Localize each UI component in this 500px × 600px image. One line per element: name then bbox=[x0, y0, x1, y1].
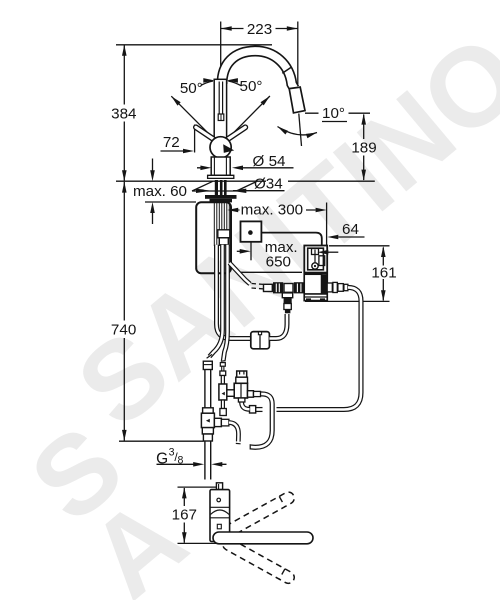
arrow 740 top bbox=[122, 182, 127, 193]
10 deg underline bbox=[322, 121, 347, 123]
svg-text:8: 8 bbox=[178, 455, 184, 467]
svg-text:167: 167 bbox=[172, 507, 197, 524]
dim 161 line bbox=[382, 248, 384, 301]
plan view faucet body bbox=[210, 490, 230, 542]
stabilizer plate bbox=[205, 195, 237, 199]
arrow max60 lower bbox=[150, 202, 155, 213]
G3/8 leader bbox=[157, 463, 227, 465]
base flange bbox=[208, 175, 234, 178]
arrow Ø54 left bbox=[200, 166, 211, 171]
arrow Ø54 right bbox=[232, 166, 243, 171]
shut-off valve upper nut bbox=[220, 371, 226, 376]
svg-text:740: 740 bbox=[111, 322, 136, 339]
dim 72 tick line bbox=[194, 125, 196, 153]
shut-off valve stem lower bbox=[221, 400, 224, 409]
hose weight bbox=[251, 332, 270, 349]
control box lower compartment bbox=[304, 274, 321, 294]
dim 189 top extension bbox=[305, 112, 370, 114]
arrow Ø34 left bbox=[196, 189, 211, 193]
control box top nipple bbox=[312, 249, 319, 255]
arrow max300 left bbox=[227, 208, 238, 213]
control box screw bbox=[312, 263, 318, 269]
dim 72 leader bbox=[161, 150, 185, 152]
arrow 50deg right at column bbox=[227, 78, 238, 83]
svg-text:G: G bbox=[156, 450, 168, 467]
max60 arrow shafts bbox=[152, 159, 154, 225]
arrow 167 bottom bbox=[182, 532, 187, 543]
bundle fitting upper bbox=[218, 230, 230, 238]
thermostat right port bbox=[248, 391, 254, 398]
svg-text:384: 384 bbox=[111, 105, 136, 122]
svg-text:max. 300: max. 300 bbox=[241, 202, 303, 219]
50 deg right arc bbox=[228, 81, 241, 86]
control box upper compartment bbox=[308, 248, 324, 270]
svg-text:10°: 10° bbox=[322, 105, 345, 122]
countertop line bbox=[116, 180, 375, 182]
dim 161 top extension bbox=[329, 245, 390, 247]
dim max300 line bbox=[238, 209, 315, 211]
dim 167 line bbox=[183, 488, 185, 543]
arrow 50deg left diagonal bbox=[171, 96, 180, 105]
arrow 72 bbox=[183, 149, 194, 154]
lever left bbox=[196, 127, 213, 139]
dim max650 underline bbox=[239, 271, 302, 273]
arrow 189 bottom bbox=[361, 170, 366, 181]
branch hose bbox=[229, 423, 239, 442]
arrow 384 bottom bbox=[122, 170, 127, 181]
arrow 189 top bbox=[361, 114, 366, 125]
thermostat left port bbox=[226, 390, 234, 397]
dim 223 extension lines bbox=[221, 22, 298, 85]
control puck bbox=[241, 221, 262, 241]
thermostat bottom port bbox=[238, 398, 245, 402]
arrow Ø34 right bbox=[231, 189, 246, 193]
supply compression nut bbox=[202, 428, 213, 434]
arrow 740 bottom bbox=[122, 430, 127, 441]
dim max300 extension bbox=[326, 203, 328, 246]
svg-text:50°: 50° bbox=[240, 78, 263, 95]
dim 189 line bbox=[363, 115, 365, 181]
hose weight to check valve bbox=[269, 314, 287, 339]
arrow max650 bbox=[240, 249, 251, 254]
thermostat elbow down bbox=[242, 399, 250, 409]
svg-text:650: 650 bbox=[266, 254, 291, 271]
arrow G3/8 left bbox=[193, 462, 204, 467]
dim 384 top extension line bbox=[116, 44, 272, 46]
inline coupling chain bbox=[264, 284, 273, 291]
shut-off valve stem upper bbox=[221, 376, 224, 385]
arrow swing arc left bbox=[278, 127, 288, 135]
50 deg left arc bbox=[201, 81, 214, 86]
supply pipe bbox=[205, 362, 211, 480]
check valve vertical body bbox=[282, 293, 292, 298]
thermostat cartridge cap bbox=[237, 371, 247, 377]
spray head bbox=[289, 87, 305, 113]
supply hose tail right bbox=[223, 245, 227, 361]
mounting nut bbox=[210, 199, 233, 203]
svg-text:50°: 50° bbox=[180, 80, 203, 97]
arrow 50deg left at column bbox=[203, 78, 214, 83]
loop hose nut bbox=[250, 406, 256, 413]
svg-text:Ø34: Ø34 bbox=[254, 176, 283, 193]
spout tube bore bbox=[222, 51, 294, 88]
arrow swing arc right bbox=[306, 133, 317, 139]
dim Ø34 leader bbox=[199, 189, 285, 192]
service loop left stub bbox=[255, 407, 263, 412]
dim max650 leader bbox=[237, 250, 242, 252]
plan body details bbox=[210, 506, 230, 508]
dim 167 bottom extension bbox=[178, 542, 222, 544]
arrow 64 bbox=[327, 235, 338, 240]
50 deg left leader line bbox=[171, 96, 214, 139]
svg-text:Ø 54: Ø 54 bbox=[253, 153, 286, 170]
arrow max60 upper bbox=[150, 170, 155, 181]
spout joint tick bbox=[282, 67, 291, 73]
arrow 223 left bbox=[221, 26, 232, 31]
svg-text:72: 72 bbox=[163, 134, 180, 151]
supply hose tail left bbox=[210, 245, 223, 357]
arrow max300 right bbox=[316, 208, 327, 213]
plan view solid arm bbox=[213, 532, 313, 544]
control box bottom bbox=[304, 294, 327, 301]
pull-out hose service loop bbox=[277, 287, 362, 409]
right connector chain bbox=[327, 283, 332, 292]
front lever cone bbox=[223, 144, 234, 153]
big J hose bbox=[251, 394, 273, 447]
arrow 223 right bbox=[287, 26, 298, 31]
dashed hose segment bbox=[252, 283, 264, 286]
arrow 384 top bbox=[122, 45, 127, 56]
ball joint bbox=[210, 137, 231, 158]
svg-text:64: 64 bbox=[342, 221, 359, 238]
control box body bbox=[304, 246, 327, 301]
base cylinder bbox=[211, 157, 230, 175]
10 deg axis line bbox=[299, 114, 302, 147]
svg-text:161: 161 bbox=[371, 264, 396, 281]
shut-off valve top cap bbox=[220, 363, 225, 367]
svg-text:223: 223 bbox=[247, 21, 272, 38]
arrow 50deg right diagonal bbox=[261, 96, 270, 105]
svg-text:max. 60: max. 60 bbox=[133, 183, 187, 200]
control box right wall bbox=[322, 274, 328, 294]
arrow 161 top bbox=[381, 246, 386, 257]
counter parallelogram diagonals bbox=[192, 181, 257, 191]
dim max650 tick bbox=[250, 242, 252, 260]
plan view dashed arm down bbox=[221, 536, 297, 585]
arrow 167 top bbox=[182, 487, 187, 498]
arrow G3/8 right bbox=[211, 462, 222, 467]
dim Ø54 leader bbox=[197, 167, 294, 169]
arrow 161 bottom bbox=[381, 290, 386, 301]
control box mid band bbox=[304, 272, 327, 275]
supply pipe top fitting bbox=[203, 361, 212, 369]
bundle fitting lower bbox=[219, 238, 228, 245]
lever right bbox=[228, 127, 245, 139]
dim 384 line bbox=[123, 45, 125, 181]
dim 167 top extension bbox=[178, 486, 222, 488]
control puck cable bbox=[253, 233, 322, 256]
shut-off valve bottom nut bbox=[220, 409, 226, 416]
threaded shank bars bbox=[215, 180, 218, 196]
column inner lines bbox=[219, 82, 222, 115]
thermostat neck bbox=[236, 377, 248, 383]
control box cable gland bbox=[319, 256, 325, 266]
faucet column bbox=[214, 79, 226, 138]
thermostat body bbox=[234, 383, 247, 398]
dim 740 line bbox=[123, 182, 125, 441]
dim 740 bottom extension line bbox=[119, 440, 204, 442]
cartridge clip bbox=[218, 114, 224, 121]
supply T branch bbox=[214, 418, 221, 426]
shut-off valve block bbox=[219, 384, 227, 400]
plan view body tab bbox=[216, 483, 222, 490]
spout tube outer bbox=[222, 51, 294, 88]
supply T upper nut bbox=[203, 408, 214, 413]
dim 161 bottom extension bbox=[305, 300, 390, 302]
pull-out hose to weight bbox=[217, 245, 252, 339]
svg-text:189: 189 bbox=[351, 139, 376, 156]
dim 64 line bbox=[338, 236, 364, 238]
counter underside line bbox=[145, 201, 196, 203]
supply T body bbox=[201, 413, 214, 427]
sensor hose from bundle bbox=[230, 263, 251, 284]
mounting frame box bbox=[196, 202, 231, 273]
plan view dashed arm up bbox=[221, 490, 297, 539]
counter parallelogram bottom edge bbox=[192, 190, 237, 192]
50 deg right leader line bbox=[228, 96, 270, 139]
control box leader arrow bbox=[317, 250, 328, 255]
dim 223 line bbox=[221, 28, 298, 30]
hose bundle upper bbox=[214, 202, 229, 246]
spray swing arc bbox=[278, 127, 318, 135]
